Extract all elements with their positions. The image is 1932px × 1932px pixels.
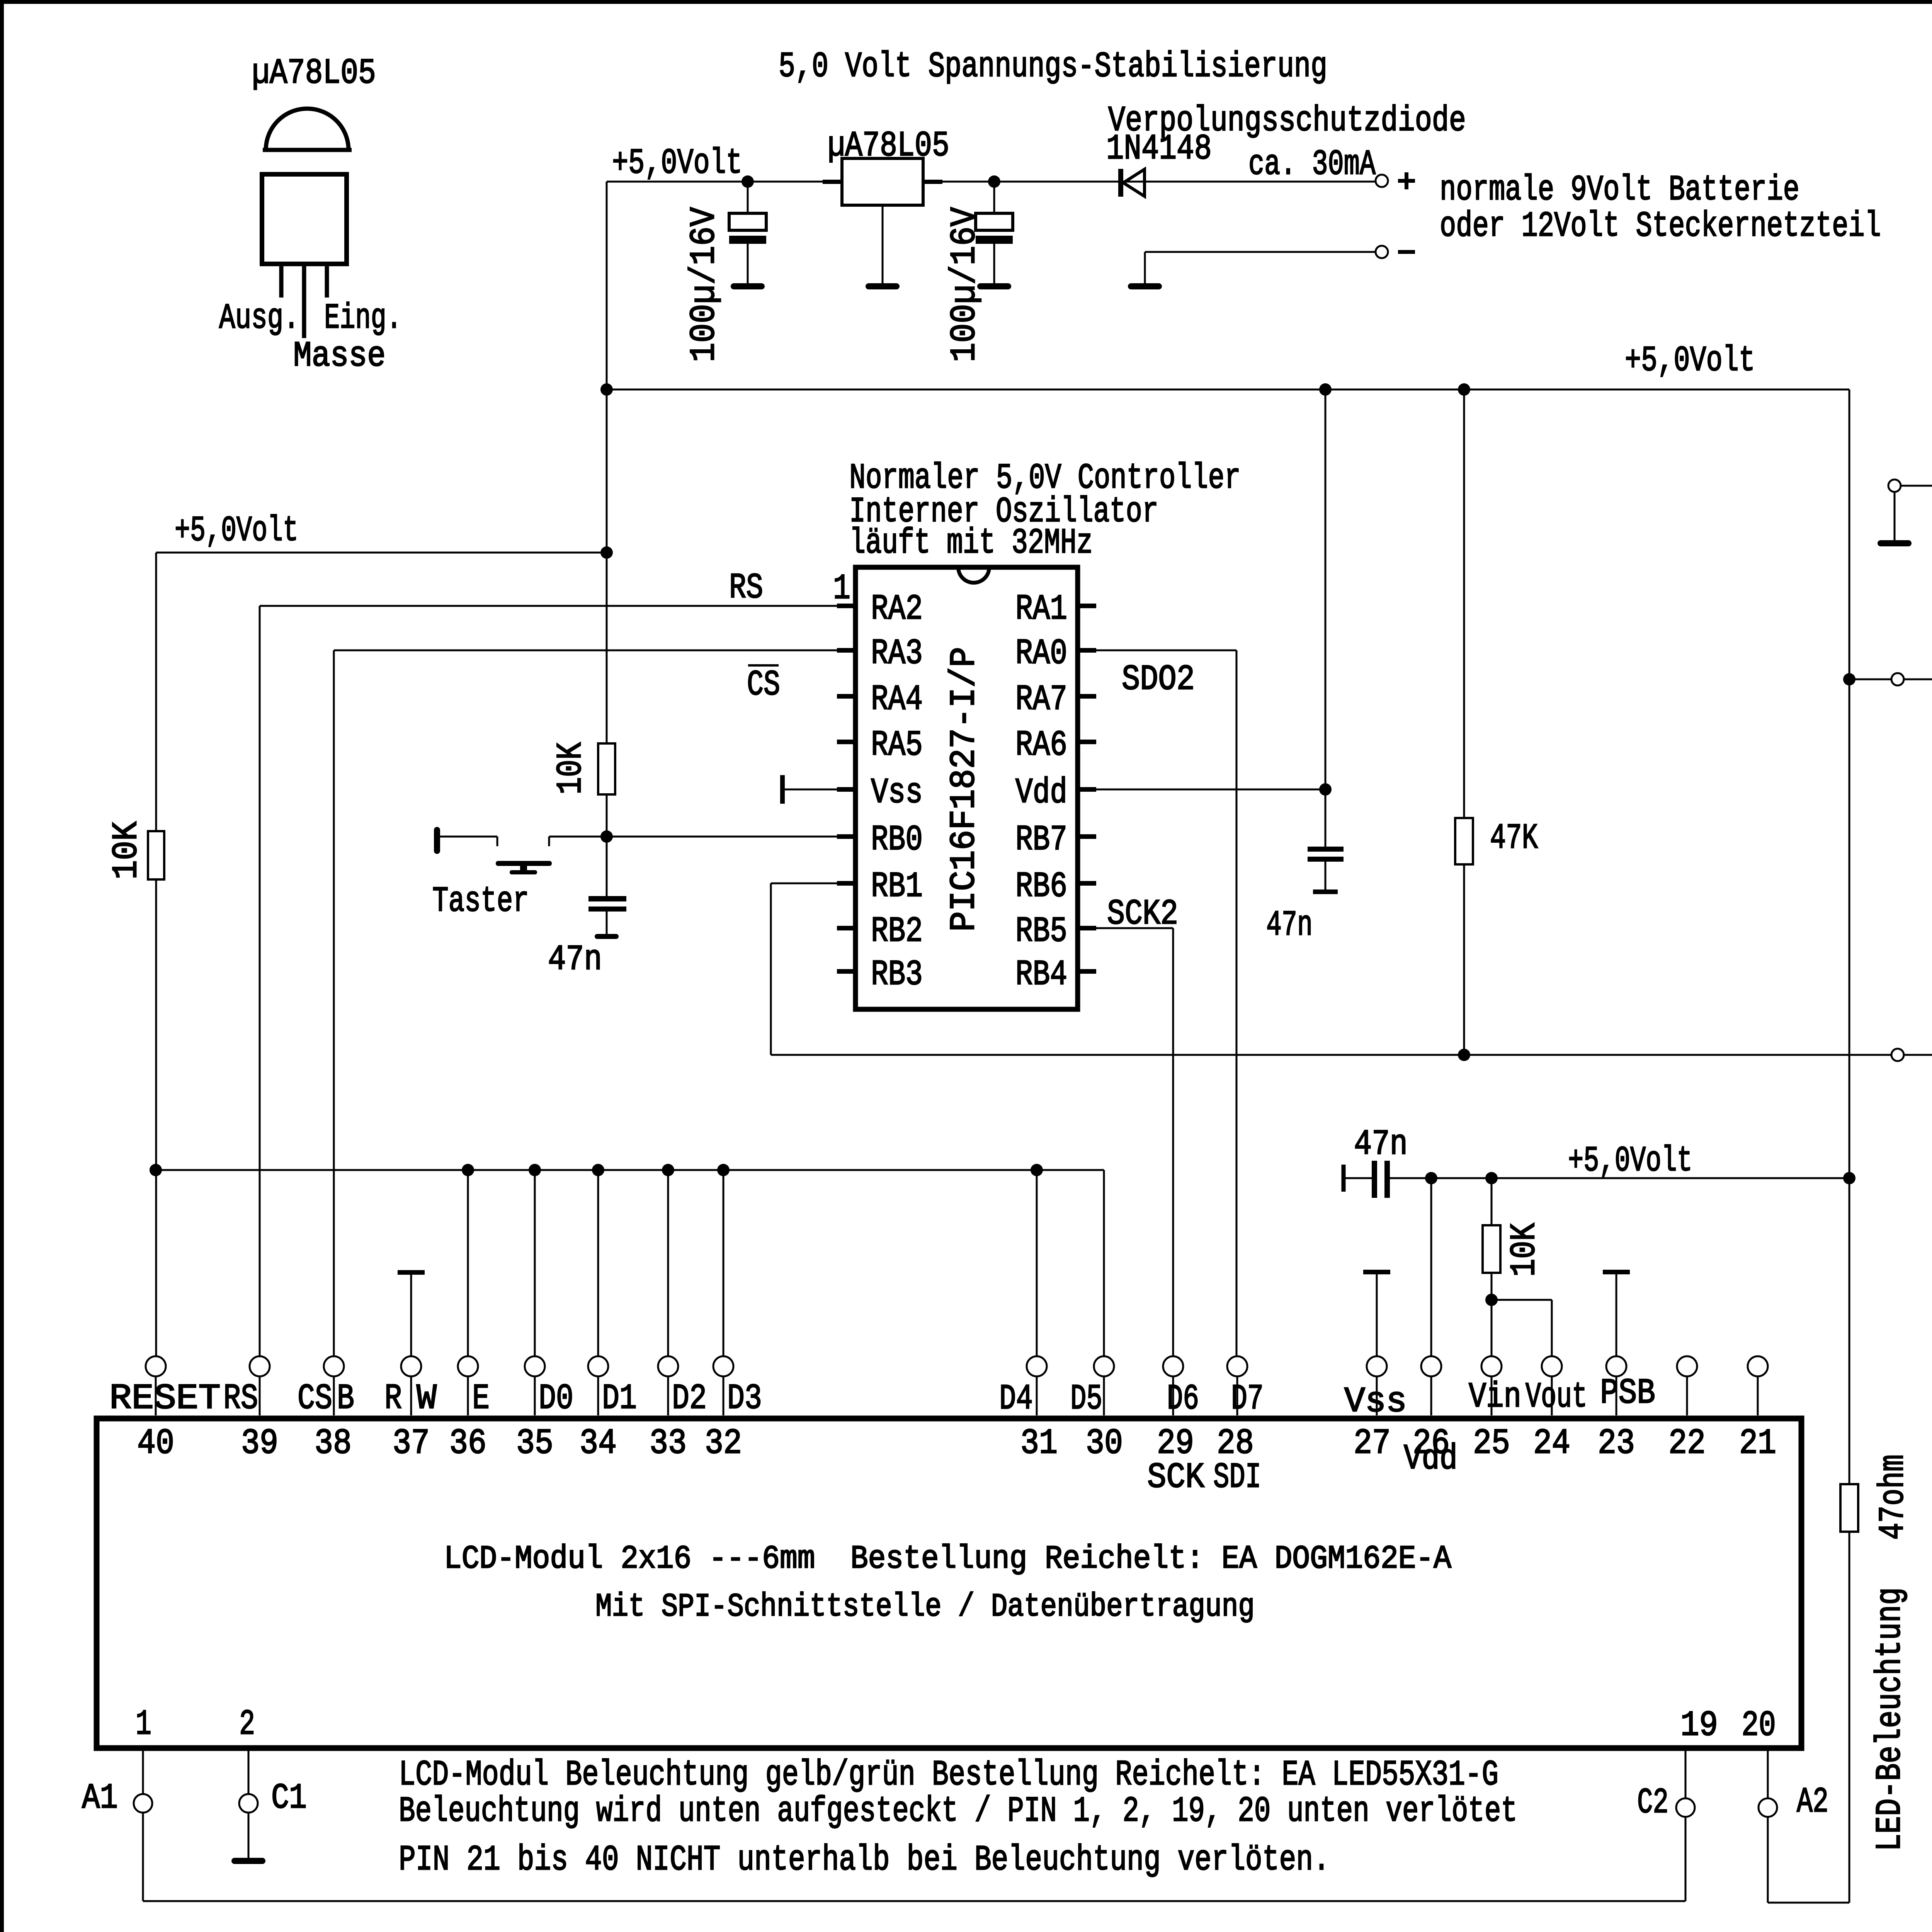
svg-text:SDO2: SDO2: [1122, 659, 1195, 700]
svg-text:37: 37: [393, 1423, 430, 1464]
svg-text:PIC16F1827-I/P: PIC16F1827-I/P: [944, 647, 985, 932]
svg-text:38: 38: [315, 1423, 352, 1464]
svg-text:47ohm: 47ohm: [1873, 1454, 1913, 1540]
svg-text:Eing.: Eing.: [324, 298, 402, 338]
svg-text:D2: D2: [672, 1378, 707, 1419]
svg-text:19: 19: [1680, 1705, 1718, 1746]
svg-text:LCD-Modul Beleuchtung gelb/grü: LCD-Modul Beleuchtung gelb/grün Bestellu…: [399, 1755, 1498, 1795]
svg-text:B: B: [337, 1378, 354, 1419]
svg-text:34: 34: [580, 1423, 617, 1464]
svg-text:D5: D5: [1070, 1379, 1102, 1419]
svg-text:35: 35: [516, 1423, 553, 1464]
svg-text:RA0: RA0: [1015, 633, 1067, 674]
svg-text:LED-Beleuchtung: LED-Beleuchtung: [1870, 1587, 1910, 1851]
svg-text:47n: 47n: [1354, 1124, 1408, 1165]
svg-text:100µ/16V: 100µ/16V: [684, 207, 724, 362]
svg-text:RA1: RA1: [1015, 589, 1067, 629]
svg-text:Vss: Vss: [871, 772, 923, 813]
svg-text:+5,0Volt: +5,0Volt: [612, 143, 742, 184]
svg-text:1: 1: [833, 568, 850, 609]
svg-text:C2: C2: [1637, 1782, 1668, 1823]
svg-text:RB4: RB4: [1015, 954, 1067, 995]
svg-text:RB1: RB1: [871, 866, 923, 907]
svg-text:SCK2: SCK2: [1107, 894, 1178, 934]
svg-text:32: 32: [705, 1423, 742, 1464]
svg-text:Vdd: Vdd: [1404, 1439, 1458, 1479]
svg-text:Mit SPI-Schnittstelle / Datenü: Mit SPI-Schnittstelle / Datenübertragung: [595, 1589, 1255, 1626]
svg-text:36: 36: [449, 1423, 486, 1464]
svg-text:µA78L05: µA78L05: [828, 126, 949, 166]
svg-text:10K: 10K: [106, 821, 147, 879]
svg-text:D7: D7: [1231, 1379, 1264, 1419]
svg-text:47K: 47K: [1490, 818, 1538, 859]
svg-text:RB6: RB6: [1015, 866, 1067, 907]
svg-text:Vdd: Vdd: [1015, 772, 1067, 813]
svg-text:CS: CS: [747, 665, 780, 705]
svg-text:SCK: SCK: [1147, 1457, 1205, 1498]
svg-text:D4: D4: [999, 1379, 1033, 1419]
svg-text:Vout: Vout: [1526, 1377, 1587, 1417]
svg-text:A1: A1: [82, 1778, 118, 1818]
svg-text:RA3: RA3: [871, 633, 923, 674]
svg-text:CS: CS: [298, 1378, 332, 1419]
svg-text:PIN 21 bis 40 NICHT unterhalb: PIN 21 bis 40 NICHT unterhalb bei Beleuc…: [399, 1840, 1330, 1880]
svg-text:21: 21: [1739, 1423, 1776, 1464]
svg-text:+5,0Volt: +5,0Volt: [175, 510, 298, 551]
svg-text:47n: 47n: [1266, 905, 1313, 946]
svg-text:RS: RS: [729, 568, 763, 608]
svg-text:1: 1: [136, 1704, 151, 1745]
svg-text:1N4148: 1N4148: [1106, 129, 1212, 169]
svg-text:normale 9Volt Batterie: normale 9Volt Batterie: [1440, 170, 1799, 210]
svg-text:+5,0Volt: +5,0Volt: [1625, 340, 1755, 381]
svg-text:30: 30: [1086, 1423, 1123, 1464]
svg-text:W: W: [417, 1378, 437, 1419]
svg-text:20: 20: [1742, 1705, 1776, 1746]
svg-text:RB2: RB2: [871, 911, 923, 952]
svg-text:R: R: [384, 1378, 402, 1419]
svg-text:ca. 30mA: ca. 30mA: [1248, 144, 1376, 185]
svg-text:D3: D3: [727, 1378, 762, 1419]
svg-text:40: 40: [137, 1423, 174, 1464]
svg-text:A2: A2: [1797, 1782, 1828, 1822]
svg-text:Masse: Masse: [293, 336, 386, 376]
svg-text:D6: D6: [1167, 1379, 1199, 1419]
svg-text:22: 22: [1668, 1423, 1706, 1464]
svg-text:E: E: [472, 1378, 490, 1419]
svg-text:RB3: RB3: [871, 954, 923, 995]
svg-text:RB0: RB0: [871, 820, 923, 860]
svg-text:47n: 47n: [548, 939, 602, 980]
svg-text:C1: C1: [271, 1778, 307, 1818]
svg-text:RB5: RB5: [1015, 911, 1067, 952]
svg-text:läuft mit 32MHz: läuft mit 32MHz: [849, 523, 1093, 563]
svg-text:µA78L05: µA78L05: [252, 53, 376, 94]
svg-text:PSB: PSB: [1600, 1373, 1655, 1413]
svg-text:25: 25: [1473, 1423, 1510, 1464]
svg-text:SDI: SDI: [1213, 1457, 1261, 1498]
svg-text:Beleuchtung wird unten aufgest: Beleuchtung wird unten aufgesteckt / PIN…: [399, 1791, 1517, 1832]
svg-text:D0: D0: [539, 1378, 573, 1419]
svg-text:RA7: RA7: [1015, 679, 1067, 720]
svg-text:2: 2: [239, 1704, 255, 1745]
svg-text:39: 39: [241, 1423, 278, 1464]
svg-text:RA6: RA6: [1015, 725, 1067, 765]
svg-text:oder 12Volt Steckernetzteil: oder 12Volt Steckernetzteil: [1440, 206, 1881, 247]
svg-text:RA2: RA2: [871, 589, 923, 629]
svg-text:Vin: Vin: [1469, 1377, 1521, 1417]
svg-text:Ausg.: Ausg.: [219, 298, 299, 338]
svg-text:RA4: RA4: [871, 679, 923, 720]
svg-text:31: 31: [1020, 1423, 1058, 1464]
svg-text:100µ/16V: 100µ/16V: [944, 207, 985, 362]
svg-text:5,0 Volt Spannungs-Stabilisier: 5,0 Volt Spannungs-Stabilisierung: [779, 46, 1327, 87]
svg-text:RA5: RA5: [871, 725, 923, 765]
svg-text:10K: 10K: [551, 742, 591, 794]
svg-text:23: 23: [1598, 1423, 1635, 1464]
svg-text:+5,0Volt: +5,0Volt: [1568, 1141, 1692, 1181]
svg-text:D1: D1: [602, 1378, 637, 1419]
svg-text:Taster: Taster: [432, 881, 529, 922]
svg-text:LCD-Modul 2x16 ---6mm Bestell: LCD-Modul 2x16 ---6mm Bestellung Reichel…: [444, 1541, 1452, 1578]
svg-text:27: 27: [1354, 1423, 1391, 1464]
svg-text:10K: 10K: [1504, 1223, 1545, 1277]
svg-text:24: 24: [1533, 1423, 1570, 1464]
svg-text:RB7: RB7: [1015, 820, 1067, 860]
svg-text:RESET: RESET: [109, 1378, 221, 1419]
svg-text:RS: RS: [223, 1378, 258, 1419]
svg-text:33: 33: [650, 1423, 687, 1464]
